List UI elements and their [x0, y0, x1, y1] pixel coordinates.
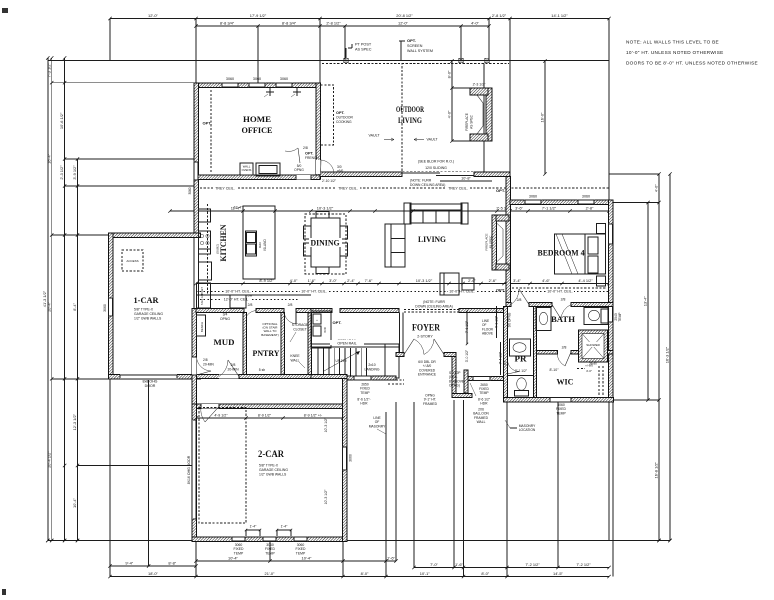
svg-text:8X16 OHG DOOR: 8X16 OHG DOOR — [187, 455, 191, 484]
svg-text:VAULT: VAULT — [368, 134, 380, 138]
svg-text:8'-4": 8'-4" — [72, 302, 77, 310]
svg-text:OPNG: OPNG — [294, 168, 304, 172]
svg-text:HOME: HOME — [243, 114, 271, 124]
svg-text:3060: 3060 — [253, 77, 261, 81]
svg-text:DOORS TO BE 8'-0" HT. UNLESS N: DOORS TO BE 8'-0" HT. UNLESS NOTED OTHER… — [626, 61, 758, 66]
svg-text:TALL CABINET: TALL CABINET — [200, 287, 204, 305]
svg-text:20'-8 1/2": 20'-8 1/2" — [396, 13, 413, 18]
svg-text:1'-4": 1'-4" — [250, 525, 258, 529]
svg-text:1'-6": 1'-6" — [387, 555, 395, 560]
svg-text:2'-3 1/2": 2'-3 1/2" — [473, 83, 487, 87]
svg-text:TREY CEIL.: TREY CEIL. — [448, 186, 468, 190]
svg-text:3'-6": 3'-6" — [515, 205, 523, 210]
svg-text:8'-9 1/2": 8'-9 1/2" — [258, 413, 272, 417]
svg-text:16'-0": 16'-0" — [540, 112, 545, 123]
svg-text:PT POST: PT POST — [355, 43, 372, 47]
svg-text:10'-4": 10'-4" — [228, 555, 239, 560]
svg-text:10'-3 1/2": 10'-3 1/2" — [324, 417, 328, 433]
svg-text:OVENS: OVENS — [242, 168, 252, 172]
svg-text:COOKING: COOKING — [336, 120, 352, 124]
svg-text:7'-6": 7'-6" — [365, 278, 373, 283]
svg-text:OPT.: OPT. — [336, 111, 344, 115]
svg-text:1/2" GWB WALLS: 1/2" GWB WALLS — [134, 317, 162, 321]
svg-text:3060: 3060 — [529, 195, 537, 199]
svg-text:OPEN RAIL: OPEN RAIL — [337, 342, 356, 346]
svg-text:8'-9 1/2" +/-: 8'-9 1/2" +/- — [304, 413, 323, 417]
svg-text:10'-0" HT. CEIL.: 10'-0" HT. CEIL. — [301, 290, 327, 294]
svg-text:TEMP: TEMP — [479, 391, 489, 395]
svg-text:MUD: MUD — [214, 337, 235, 347]
svg-text:4'-0": 4'-0" — [471, 20, 479, 25]
svg-text:4'-0": 4'-0" — [290, 278, 298, 283]
svg-text:18'-0": 18'-0" — [148, 571, 159, 576]
svg-text:(NOTE: FURR: (NOTE: FURR — [423, 300, 445, 304]
svg-text:13'-4": 13'-4" — [643, 296, 648, 307]
svg-text:PR: PR — [515, 354, 528, 364]
svg-text:20'-4": 20'-4" — [46, 301, 51, 312]
svg-text:7'-0": 7'-0" — [430, 562, 438, 567]
svg-text:BASEMENT): BASEMENT) — [261, 333, 279, 337]
svg-text:2/8: 2/8 — [203, 358, 208, 362]
svg-text:20-MIN: 20-MIN — [203, 362, 214, 366]
svg-text:OUTDOOR: OUTDOOR — [396, 104, 424, 114]
svg-text:OFFICE: OFFICE — [242, 125, 273, 135]
svg-text:5 sh: 5 sh — [259, 368, 266, 372]
svg-text:3/4: 3/4 — [223, 313, 228, 317]
svg-text:12'-0": 12'-0" — [148, 13, 159, 18]
svg-text:2/8: 2/8 — [248, 303, 253, 307]
svg-text:2x10: 2x10 — [368, 363, 375, 367]
svg-text:2/8: 2/8 — [562, 346, 567, 350]
svg-text:2-CAR: 2-CAR — [258, 449, 284, 459]
svg-text:10'-3 1/2": 10'-3 1/2" — [324, 489, 328, 505]
svg-text:1'-4": 1'-4" — [281, 525, 289, 529]
svg-text:BEDROOM 4: BEDROOM 4 — [538, 248, 586, 258]
svg-text:8'-8 3/4": 8'-8 3/4" — [220, 20, 235, 25]
svg-text:1'-6": 1'-6" — [455, 562, 463, 567]
svg-text:OPT.: OPT. — [333, 320, 342, 325]
svg-text:2/8: 2/8 — [561, 298, 566, 302]
svg-text:BATH: BATH — [551, 314, 575, 324]
svg-text:OPT.: OPT. — [496, 288, 505, 293]
svg-text:HDR: HDR — [360, 402, 368, 406]
svg-text:WALL SYSTEM: WALL SYSTEM — [407, 49, 433, 53]
svg-text:10'-4": 10'-4" — [72, 497, 77, 508]
svg-text:17'-9 1/2": 17'-9 1/2" — [250, 13, 267, 18]
svg-text:2/8: 2/8 — [303, 146, 308, 150]
svg-text:8'-0": 8'-0" — [447, 70, 452, 78]
svg-text:3/0 OPNG: 3/0 OPNG — [508, 312, 512, 327]
svg-text:FOYER: FOYER — [412, 323, 440, 333]
svg-text:DOWN CEILING AREA): DOWN CEILING AREA) — [410, 183, 445, 187]
svg-text:TREY CEIL.: TREY CEIL. — [215, 186, 235, 190]
svg-text:10'-0" HT. CEIL.: 10'-0" HT. CEIL. — [547, 290, 573, 294]
svg-text:3'-0 1/2": 3'-0 1/2" — [465, 349, 469, 362]
svg-text:(SUBZ): (SUBZ) — [216, 244, 220, 254]
svg-text:10'-3 1/2": 10'-3 1/2" — [317, 205, 334, 210]
svg-text:OPNG): OPNG) — [449, 384, 460, 388]
svg-text:ISLAND: ISLAND — [263, 239, 267, 251]
svg-text:TEMP: TEMP — [618, 312, 622, 322]
svg-text:2'-8 1/2": 2'-8 1/2" — [326, 20, 341, 25]
svg-text:OPNG: OPNG — [220, 317, 230, 321]
svg-text:20'-4 1/2": 20'-4 1/2" — [46, 451, 51, 468]
svg-text:14'-1 1/2": 14'-1 1/2" — [551, 13, 568, 18]
svg-text:(SEE BLDR FOR R.O.): (SEE BLDR FOR R.O.) — [418, 160, 454, 164]
svg-text:KNEE: KNEE — [290, 354, 300, 358]
svg-text:ABOVE: ABOVE — [482, 332, 493, 336]
svg-text:WALL: WALL — [290, 358, 299, 362]
svg-text:5/8" TYPE-X: 5/8" TYPE-X — [134, 308, 154, 312]
svg-text:TEMP: TEMP — [234, 551, 244, 555]
svg-text:11'-4": 11'-4" — [234, 206, 244, 210]
svg-text:3'-9 1/2": 3'-9 1/2" — [72, 165, 77, 180]
svg-text:GARAGE CEILING: GARAGE CEILING — [134, 312, 163, 316]
svg-text:2'-8": 2'-8" — [586, 205, 594, 210]
svg-text:2'-1 1/2": 2'-1 1/2" — [515, 369, 528, 373]
svg-text:4'-6": 4'-6" — [542, 278, 550, 283]
svg-text:3060: 3060 — [582, 195, 590, 199]
svg-text:10'-1": 10'-1" — [420, 571, 431, 576]
svg-text:2-STORY: 2-STORY — [417, 335, 433, 339]
svg-text:GARAGE CEILING: GARAGE CEILING — [259, 468, 288, 472]
svg-text:MASONRY: MASONRY — [369, 424, 386, 428]
svg-text:1-CAR: 1-CAR — [134, 295, 160, 305]
svg-text:DINING: DINING — [311, 238, 340, 248]
svg-text:8'-8 3/4": 8'-8 3/4" — [282, 20, 297, 25]
svg-text:WALL: WALL — [477, 420, 486, 424]
svg-text:8'-0": 8'-0" — [361, 571, 369, 576]
svg-text:7'-2 1/2": 7'-2 1/2" — [576, 562, 591, 567]
svg-text:4'-0": 4'-0" — [447, 110, 452, 118]
svg-text:1/2" GWB WALLS: 1/2" GWB WALLS — [259, 473, 287, 477]
svg-text:CLOSET: CLOSET — [293, 327, 307, 331]
svg-text:OPT.: OPT. — [203, 121, 212, 126]
svg-text:10'-3 1/2": 10'-3 1/2" — [416, 278, 433, 283]
svg-text:20-MIN: 20-MIN — [227, 367, 239, 371]
svg-text:16'-3 1/2": 16'-3 1/2" — [665, 346, 670, 363]
svg-text:21'-0": 21'-0" — [265, 571, 276, 576]
svg-text:FRENCH: FRENCH — [305, 156, 319, 160]
svg-text:12/0 SLIDING: 12/0 SLIDING — [425, 166, 447, 170]
svg-text:12'-0": 12'-0" — [398, 20, 409, 25]
svg-text:10'-4": 10'-4" — [302, 555, 313, 560]
svg-text:3'-0": 3'-0" — [329, 278, 337, 283]
svg-text:NOTE: ALL WALLS THIS LEVEL TO: NOTE: ALL WALLS THIS LEVEL TO BE — [626, 40, 719, 45]
svg-text:8'-0": 8'-0" — [481, 571, 489, 576]
svg-text:+: + — [316, 318, 318, 322]
svg-text:TEMP: TEMP — [265, 551, 275, 555]
svg-text:9x10: 9x10 — [258, 242, 262, 249]
svg-text:7'-2 1/2": 7'-2 1/2" — [525, 562, 540, 567]
svg-text:LANDING: LANDING — [364, 367, 379, 371]
svg-text:W/D: W/D — [323, 327, 327, 332]
svg-text:45 SPEC: 45 SPEC — [489, 235, 493, 248]
svg-text:ACCESS: ACCESS — [126, 259, 138, 263]
svg-text:3060: 3060 — [103, 304, 107, 312]
svg-text:DOWN (CEILING AREA): DOWN (CEILING AREA) — [415, 305, 453, 309]
svg-text:10'-6 1/2": 10'-6 1/2" — [59, 112, 64, 129]
svg-text:DOOR: DOOR — [145, 384, 156, 388]
svg-text:VAULT: VAULT — [426, 138, 438, 142]
svg-text:TREY CEIL.: TREY CEIL. — [338, 186, 358, 190]
svg-text:16'-4": 16'-4" — [46, 153, 51, 164]
svg-text:AS SPEC: AS SPEC — [469, 114, 473, 129]
svg-text:7'-1 1/2": 7'-1 1/2" — [542, 205, 557, 210]
svg-text:TEMP: TEMP — [360, 391, 370, 395]
svg-text:2'-6": 2'-6" — [468, 278, 476, 283]
svg-text:4'-4 1/2": 4'-4 1/2" — [578, 278, 593, 283]
svg-text:10'-0" HT. UNLESS NOTED OTHERW: 10'-0" HT. UNLESS NOTED OTHERWISE — [626, 50, 724, 55]
svg-text:KITCHEN: KITCHEN — [218, 224, 228, 262]
svg-text:1'-6": 1'-6" — [308, 278, 316, 283]
svg-text:OUTDOOR: OUTDOOR — [336, 116, 353, 120]
svg-text:3060: 3060 — [280, 77, 288, 81]
svg-text:DW: DW — [248, 294, 253, 298]
svg-text:12'-3 1/2": 12'-3 1/2" — [72, 413, 77, 430]
svg-text:2'-6": 2'-6" — [489, 278, 497, 283]
svg-text:10'-8": 10'-8" — [461, 177, 471, 181]
svg-text:OPT.: OPT. — [407, 38, 416, 43]
svg-text:3'-4": 3'-4" — [513, 278, 521, 283]
svg-text:PNTRY: PNTRY — [253, 348, 281, 358]
svg-text:SHOWER: SHOWER — [586, 343, 600, 347]
svg-text:14'-5": 14'-5" — [553, 571, 564, 576]
svg-text:+/-6/0: +/-6/0 — [585, 364, 593, 368]
svg-text:3060: 3060 — [188, 187, 192, 194]
svg-text:8'-10": 8'-10" — [550, 368, 560, 372]
svg-text:x6/0: x6/0 — [337, 169, 343, 173]
svg-text:UP 19R: UP 19R — [335, 359, 347, 363]
svg-text:4'-9 1/2": 4'-9 1/2" — [214, 413, 228, 417]
svg-text:4'-0": 4'-0" — [586, 369, 592, 373]
svg-text:STORAGE: STORAGE — [292, 323, 309, 327]
svg-text:8'-8": 8'-8" — [168, 560, 176, 565]
svg-text:4'-0": 4'-0" — [654, 184, 659, 192]
svg-text:LIVING: LIVING — [418, 234, 446, 244]
svg-text:2/8: 2/8 — [517, 298, 522, 302]
svg-text:12'-0" HT. CEIL: 12'-0" HT. CEIL — [224, 298, 249, 302]
svg-text:9'-4": 9'-4" — [125, 560, 133, 565]
svg-text:WIC: WIC — [557, 377, 574, 387]
svg-text:3060: 3060 — [349, 454, 353, 462]
svg-text:2'-8 1/2": 2'-8 1/2" — [492, 13, 507, 18]
svg-text:FRAMED: FRAMED — [423, 402, 438, 406]
svg-text:LOCATION: LOCATION — [519, 428, 536, 432]
svg-text:2'-10 1/2": 2'-10 1/2" — [322, 179, 337, 183]
svg-text:3060: 3060 — [226, 77, 234, 81]
svg-text:7'-3 1/2": 7'-3 1/2" — [46, 63, 51, 78]
svg-text:2/8: 2/8 — [231, 363, 236, 367]
svg-text:2/8: 2/8 — [503, 361, 507, 366]
svg-text:AS SPEC: AS SPEC — [355, 48, 372, 52]
svg-text:2'-3 1/2": 2'-3 1/2" — [59, 165, 64, 180]
svg-text:HDR: HDR — [480, 402, 488, 406]
svg-text:2/8: 2/8 — [288, 303, 293, 307]
svg-text:OPT.: OPT. — [496, 188, 505, 193]
svg-text:SCREEN: SCREEN — [407, 44, 423, 48]
svg-text:TEMP: TEMP — [296, 551, 306, 555]
svg-text:BENCH: BENCH — [200, 322, 204, 332]
svg-text:LIVING: LIVING — [398, 115, 422, 125]
svg-text:2'-4": 2'-4" — [347, 278, 355, 283]
svg-text:16'-8 1/2": 16'-8 1/2" — [654, 461, 659, 478]
svg-text:8x8 OHG: 8x8 OHG — [143, 380, 158, 384]
svg-text:ENTRANCE: ENTRANCE — [418, 373, 437, 377]
svg-text:TEMP: TEMP — [556, 411, 566, 415]
svg-text:5/8" TYPE-X: 5/8" TYPE-X — [259, 464, 279, 468]
svg-text:FIREPLACE: FIREPLACE — [465, 113, 469, 131]
